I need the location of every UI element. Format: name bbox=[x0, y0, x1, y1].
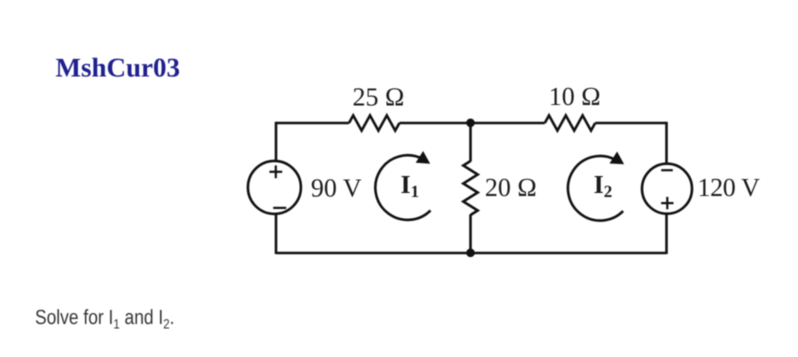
svg-text:I2: I2 bbox=[594, 170, 613, 201]
wire middle upper bbox=[469, 123, 472, 162]
svg-text:90 V: 90 V bbox=[311, 173, 362, 202]
node junction dot top bbox=[466, 119, 475, 128]
wire top-middle segment bbox=[399, 122, 544, 125]
mesh loop I1 arrowhead bbox=[416, 151, 431, 164]
resistor R1 25ohm zigzag bbox=[349, 115, 399, 130]
V1 minus sign bbox=[273, 207, 286, 209]
wire right upper bbox=[665, 122, 668, 165]
wire bottom bbox=[276, 252, 667, 255]
mesh loop I2 arrowhead bbox=[610, 152, 625, 165]
svg-text:MshCur03: MshCur03 bbox=[56, 53, 181, 83]
mesh loop I1 arc bbox=[375, 155, 430, 220]
wire right lower bbox=[665, 213, 668, 254]
source V2 120V circle bbox=[642, 164, 692, 214]
svg-text:120 V: 120 V bbox=[698, 173, 761, 202]
wire top-right segment bbox=[595, 122, 666, 125]
svg-text:25 Ω: 25 Ω bbox=[352, 82, 404, 111]
wire left lower bbox=[275, 214, 278, 255]
svg-text:20 Ω: 20 Ω bbox=[485, 173, 537, 202]
svg-text:I1: I1 bbox=[401, 170, 420, 201]
mesh loop I2 arc bbox=[568, 156, 623, 221]
resistor R3 20ohm vertical zigzag bbox=[463, 161, 477, 215]
svg-text:Solve for I1 and I2.: Solve for I1 and I2. bbox=[35, 306, 175, 332]
node junction dot bottom bbox=[466, 249, 475, 258]
svg-text:10 Ω: 10 Ω bbox=[549, 82, 601, 111]
V1 plus sign bbox=[269, 165, 282, 178]
wire left upper bbox=[275, 122, 278, 162]
wire middle lower bbox=[469, 215, 472, 254]
V2 minus sign bbox=[661, 169, 673, 171]
V2 plus sign bbox=[661, 197, 673, 209]
resistor R2 10ohm zigzag bbox=[545, 115, 595, 130]
source V1 90V circle bbox=[248, 161, 301, 214]
wire top-left segment bbox=[276, 122, 349, 125]
